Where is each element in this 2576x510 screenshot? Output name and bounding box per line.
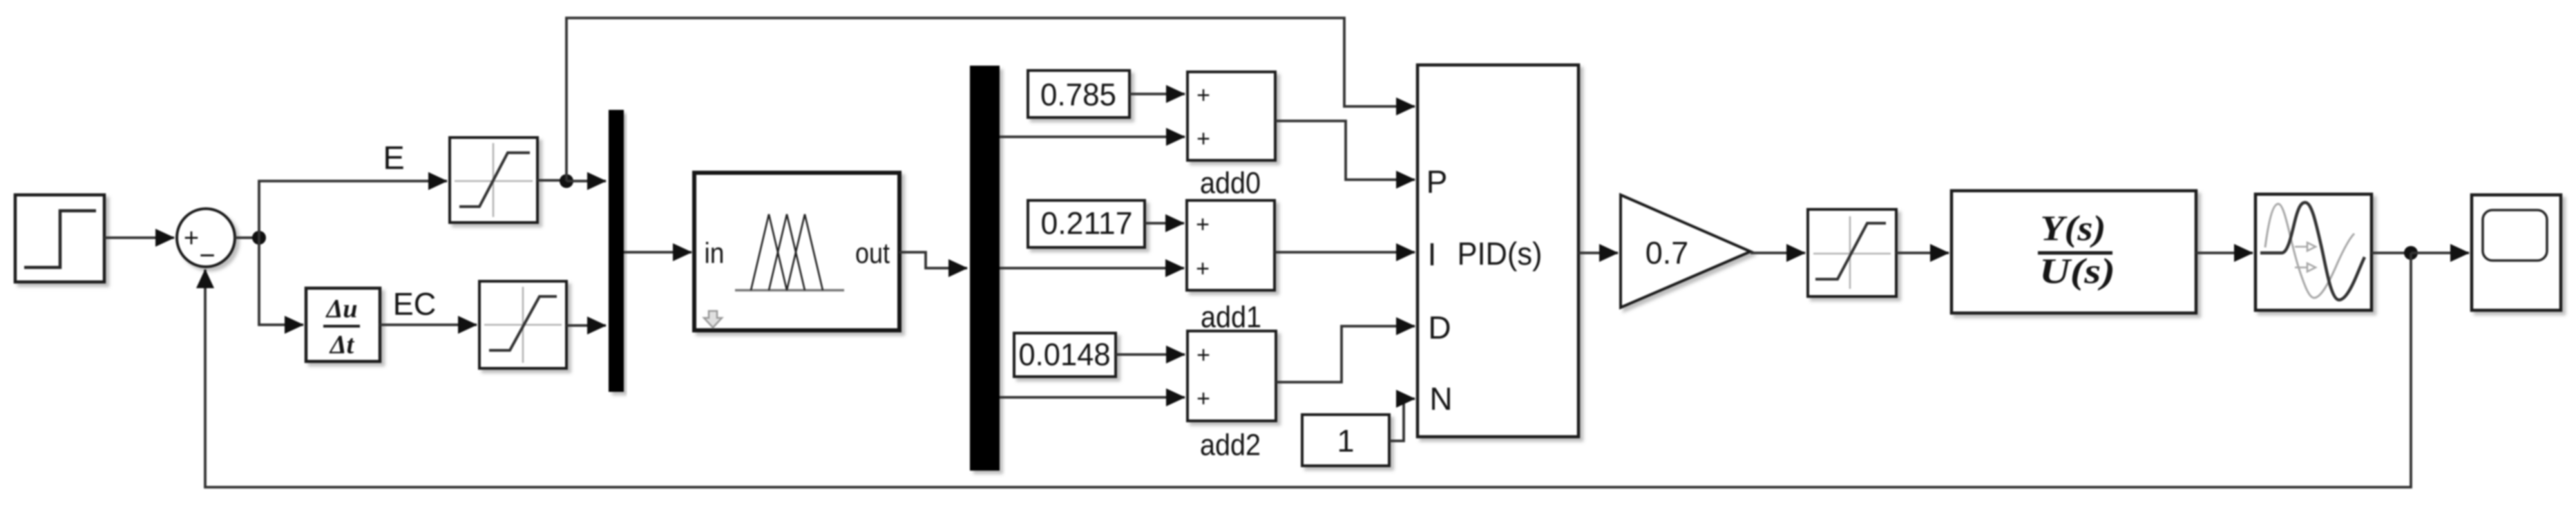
wire step to sum — [104, 236, 174, 239]
wire gain to saturation 3 — [1750, 252, 1805, 254]
wire node down to derivative block — [259, 238, 303, 325]
wire PID to gain — [1578, 252, 1618, 254]
adder add0 — [1187, 72, 1275, 160]
constant 0.0148 — [1014, 333, 1116, 377]
svg-text:0.785: 0.785 — [1040, 77, 1116, 113]
wire sum to branch node — [235, 236, 259, 239]
svg-text:add1: add1 — [1201, 301, 1261, 334]
feedback wire from output node to sum — [205, 253, 2411, 487]
svg-text:0.0148: 0.0148 — [1019, 337, 1111, 372]
svg-text:+: + — [1196, 342, 1210, 368]
wire node to mux — [566, 180, 606, 182]
adder add2 — [1187, 331, 1276, 421]
svg-text:E: E — [383, 140, 404, 176]
constant 0.2117 — [1028, 200, 1145, 247]
fuzzy logic controller block — [694, 173, 899, 330]
svg-text:EC: EC — [393, 287, 437, 322]
svg-text:0.7: 0.7 — [1645, 236, 1689, 271]
wire fuzzy out to demux — [899, 252, 967, 268]
adder add1 — [1187, 200, 1275, 290]
saturation block 3 — [1808, 209, 1896, 296]
wire saturation E to node — [537, 179, 566, 182]
PID controller block — [1418, 65, 1578, 437]
svg-text:in: in — [705, 237, 725, 270]
output junction node — [2404, 246, 2418, 260]
svg-text:+: + — [184, 224, 199, 253]
svg-text:+: + — [1196, 256, 1210, 282]
svg-text:U(s): U(s) — [2039, 252, 2115, 292]
wire demux out1 to add0 — [1000, 135, 1185, 138]
svg-text:Δt: Δt — [329, 330, 355, 359]
junction node after sum — [252, 231, 266, 245]
wire demux out3 to add2 — [1000, 396, 1185, 399]
svg-text:+: + — [1196, 386, 1210, 412]
wire saturation EC to mux — [566, 324, 606, 327]
svg-text:−: − — [199, 240, 215, 271]
junction node after saturation E — [560, 174, 573, 188]
saturation block E — [450, 138, 537, 223]
svg-text:+: + — [1196, 211, 1210, 238]
svg-text:add0: add0 — [1200, 167, 1261, 200]
constant 1 — [1302, 415, 1389, 466]
wire add1 to PID I input — [1275, 251, 1415, 254]
svg-text:I: I — [1428, 236, 1437, 272]
svg-text:0.2117: 0.2117 — [1041, 206, 1133, 241]
transport delay block — [2255, 194, 2372, 310]
svg-text:Y(s): Y(s) — [2041, 209, 2106, 249]
wire 0.2117 to add1 — [1145, 222, 1184, 225]
saturation block EC — [479, 281, 566, 368]
wire node to scope — [2411, 252, 2469, 254]
derivative block du/dt — [306, 288, 380, 361]
wire add0 to PID P input — [1275, 121, 1415, 180]
gain 0.7 triangle — [1621, 195, 1750, 308]
scope block — [2472, 195, 2561, 310]
wire du/dt to saturation EC — [380, 323, 477, 326]
summing junction — [177, 209, 235, 271]
svg-text:+: + — [1196, 126, 1210, 152]
constant 0.785 — [1028, 70, 1129, 117]
demux bar — [970, 66, 1000, 471]
wire demux out2 to add1 — [1000, 267, 1184, 270]
svg-text:add2: add2 — [1200, 428, 1261, 462]
wire saturation 3 to transfer function — [1896, 252, 1949, 254]
svg-text:1: 1 — [1337, 424, 1354, 459]
transfer function block Y(s)/U(s) — [1952, 191, 2196, 313]
mux bar — [609, 110, 624, 392]
wire transfer function to transport delay — [2196, 252, 2253, 254]
wire 0.0148 to add2 — [1116, 353, 1185, 356]
svg-text:P: P — [1427, 164, 1448, 200]
svg-text:N: N — [1429, 381, 1452, 417]
wire node up to saturation E — [259, 181, 447, 238]
wire node up over the top to PID error input — [566, 18, 1415, 181]
wire add2 to PID D input — [1276, 326, 1415, 382]
svg-text:Δu: Δu — [325, 294, 358, 323]
svg-text:PID(s): PID(s) — [1458, 236, 1543, 272]
svg-text:out: out — [855, 237, 890, 270]
wire 0.785 to add0 — [1129, 93, 1185, 95]
step input block — [15, 195, 104, 282]
wire transport delay to output node — [2372, 252, 2411, 254]
wire mux to fuzzy controller — [624, 251, 691, 254]
svg-text:D: D — [1428, 310, 1451, 346]
wire constant 1 to PID N input — [1389, 399, 1415, 441]
svg-text:+: + — [1196, 82, 1210, 108]
